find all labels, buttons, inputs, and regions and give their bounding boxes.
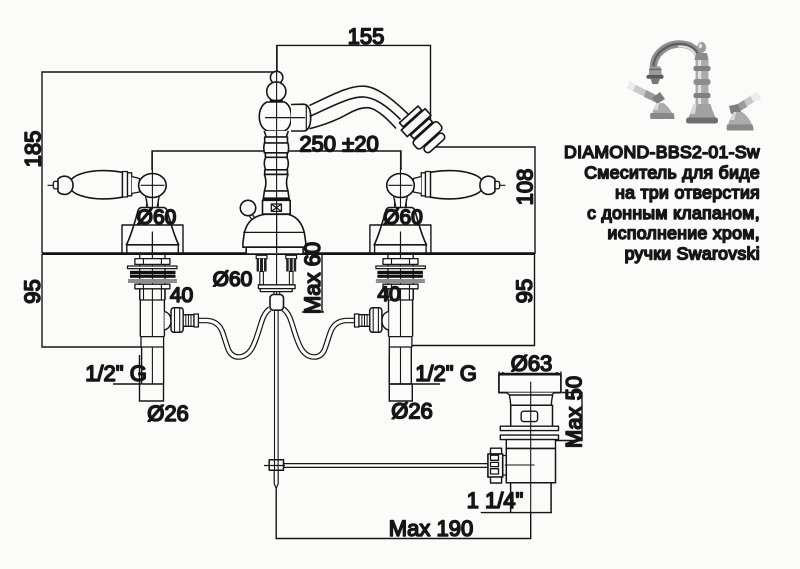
svg-text:с донным клапаном,: с донным клапаном, [587,203,760,223]
svg-text:40: 40 [170,284,193,307]
svg-text:95: 95 [512,279,537,303]
svg-text:ручки Swarovski: ручки Swarovski [625,244,760,264]
svg-text:Ø60: Ø60 [213,268,253,291]
svg-text:Max 190: Max 190 [389,516,473,541]
svg-text:40: 40 [377,283,400,306]
svg-text:108: 108 [513,169,538,206]
svg-text:1/2" G: 1/2" G [85,361,147,386]
svg-text:185: 185 [21,131,46,168]
svg-text:155: 155 [348,24,385,49]
svg-text:Ø63: Ø63 [511,351,553,376]
svg-text:DIAMOND-BBS2-01-Sw: DIAMOND-BBS2-01-Sw [564,142,760,162]
svg-text:Смеситель для биде: Смеситель для биде [584,162,760,182]
svg-text:Max 50: Max 50 [562,376,587,448]
svg-text:1/2" G: 1/2" G [415,361,477,386]
svg-text:250 ±20: 250 ±20 [299,132,378,157]
svg-text:Ø60: Ø60 [137,206,177,229]
svg-text:Ø60: Ø60 [383,206,423,229]
svg-text:исполнение хром,: исполнение хром, [608,223,760,243]
svg-text:1 1/4": 1 1/4" [467,488,524,513]
svg-text:95: 95 [20,279,45,303]
svg-text:на три отверстия: на три отверстия [615,183,760,203]
svg-text:Ø26: Ø26 [391,399,433,424]
svg-text:Max 60: Max 60 [300,242,325,314]
svg-text:Ø26: Ø26 [147,401,189,426]
